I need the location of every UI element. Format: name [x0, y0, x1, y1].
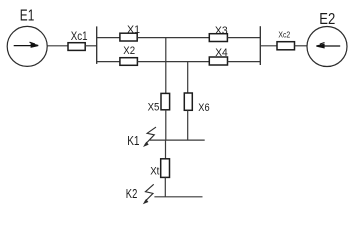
- wire bus B to Xc2: [260, 45, 277, 47]
- wire X2 to X4: [137, 61, 209, 63]
- reactance Xc2: [277, 42, 295, 50]
- svg-text:X2: X2: [123, 45, 135, 57]
- bus A: [96, 26, 98, 64]
- wire X2 line to X6: [187, 62, 189, 93]
- wire X1 to X3: [137, 37, 209, 39]
- wire bus A to X2: [97, 61, 120, 63]
- reactance X1: [120, 33, 137, 41]
- svg-text:E1: E1: [20, 7, 35, 24]
- bus B: [259, 26, 261, 65]
- wire E1 to Xc1: [47, 45, 68, 47]
- wire Xc1 to bus A: [85, 45, 97, 47]
- reactance X5: [161, 93, 170, 109]
- fault bar K2: [154, 196, 202, 198]
- svg-text:K1: K1: [127, 133, 139, 148]
- reactance X3: [209, 34, 227, 42]
- fault K2 lightning: [143, 184, 154, 204]
- svg-text:Xc2: Xc2: [278, 30, 290, 39]
- fault K1 lightning: [143, 127, 156, 147]
- wire node M to X5: [165, 38, 167, 94]
- svg-text:K2: K2: [126, 187, 138, 201]
- wire Xc2 to E2: [295, 45, 308, 47]
- reactance X6: [184, 93, 192, 110]
- E1 arrow: [14, 42, 39, 47]
- wire K1 bar to Xt: [165, 140, 167, 159]
- generator E1: [7, 26, 47, 66]
- reactance X4: [209, 57, 227, 65]
- generator E2: [307, 27, 347, 67]
- svg-text:X5: X5: [148, 102, 160, 114]
- wire X3 to bus B: [227, 37, 260, 39]
- wire X6 to fault bar K1: [187, 110, 189, 140]
- svg-text:Xt: Xt: [150, 166, 159, 178]
- E2 arrow: [316, 43, 340, 48]
- svg-text:Xc1: Xc1: [71, 31, 88, 43]
- fault bar K1: [150, 139, 205, 141]
- wire X5 to fault bar K1: [165, 110, 167, 140]
- wire Xt to fault bar K2: [164, 177, 166, 196]
- reactance X2: [120, 58, 137, 66]
- svg-text:E2: E2: [319, 11, 335, 28]
- svg-text:X6: X6: [198, 102, 209, 114]
- reactance Xc1: [68, 43, 85, 51]
- wire bus A to X1: [97, 37, 120, 39]
- transformer reactance Xt: [161, 159, 170, 178]
- wire X4 to bus B: [228, 61, 261, 63]
